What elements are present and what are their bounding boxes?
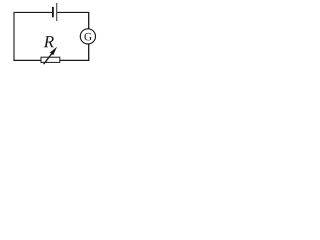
galvanometer U1 circle bbox=[80, 29, 95, 44]
rheostat label R bbox=[44, 36, 54, 47]
battery B1 negative plate (short thick) bbox=[52, 7, 54, 17]
wire: right side lower vertical from galvanometer bbox=[88, 44, 90, 61]
wire: top-right segment from battery bbox=[57, 11, 88, 13]
wire: left side vertical bbox=[13, 12, 15, 61]
rheostat arrow shaft bbox=[44, 53, 52, 64]
wire: bottom-left segment bbox=[13, 59, 41, 61]
rheostat arrow head bbox=[50, 47, 57, 56]
galvanometer label G bbox=[84, 33, 91, 41]
battery B1 positive plate (long thin) bbox=[55, 3, 58, 21]
wire: top-left segment to battery bbox=[14, 11, 53, 13]
wire: right side upper vertical to galvanometer bbox=[88, 12, 90, 29]
wire: bottom-right segment bbox=[60, 59, 90, 61]
rheostat R body box bbox=[41, 57, 60, 62]
